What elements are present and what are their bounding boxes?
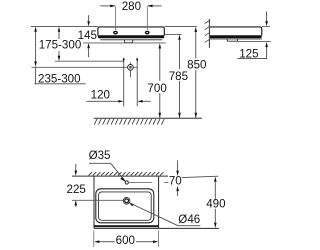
svg-text:600: 600	[116, 234, 135, 247]
faucet hole line	[129, 182, 152, 184]
dim 70	[177, 160, 179, 171]
dim 225	[75, 164, 77, 171]
basin plan view front edge line	[94, 227, 219, 229]
dim 235-300	[34, 27, 37, 32]
drain hole outer	[123, 198, 130, 205]
svg-text:120: 120	[91, 88, 110, 101]
dim 490	[214, 177, 217, 182]
dim 280 line	[100, 5, 115, 7]
dim 785	[178, 35, 181, 40]
basin plan view front thick band	[94, 225, 158, 227]
drain hole inner	[125, 199, 129, 203]
dim 145	[88, 15, 90, 21]
svg-text:Ø46: Ø46	[178, 213, 200, 226]
dim 175-300	[58, 27, 61, 32]
mounting hole right	[146, 31, 149, 33]
drain trap symbol	[129, 62, 131, 77]
svg-text:490: 490	[206, 198, 225, 211]
basin side view lower thin line	[210, 38, 262, 40]
basin front view thick bottom band	[98, 35, 164, 38]
svg-text:175-300: 175-300	[39, 39, 82, 52]
label Ø46 with leader	[128, 202, 134, 206]
svg-text:70: 70	[169, 174, 182, 187]
basin front view outline	[98, 27, 164, 36]
basin bowl outer	[96, 189, 154, 223]
node drain center line plan view	[72, 199, 123, 201]
svg-text:225: 225	[67, 183, 86, 196]
supply pipe right	[136, 58, 138, 107]
dim 125	[266, 12, 268, 22]
basin plan view outer rectangle	[94, 176, 159, 228]
supply pipe left	[123, 58, 125, 107]
basin side view drain cover bump	[227, 39, 238, 41]
floor hatching	[94, 119, 164, 125]
node 125 lower reference line	[238, 41, 271, 43]
svg-text:850: 850	[187, 58, 206, 71]
basin front view lower thin line	[100, 39, 162, 41]
node wall line plan view	[72, 175, 168, 177]
wall line side view with hatching	[208, 19, 210, 48]
wall hatching plan view	[89, 172, 164, 175]
faucet hole	[125, 181, 128, 184]
node 785 reference line	[164, 33, 181, 35]
node basin underside reference line	[83, 42, 166, 44]
dim 850	[195, 27, 198, 32]
dim 700	[159, 43, 162, 48]
dim 120	[86, 100, 118, 102]
node 125 upper reference line	[262, 26, 270, 28]
svg-text:280: 280	[122, 0, 141, 13]
dim 280 extension lines	[114, 7, 116, 31]
basin side view outline	[210, 27, 262, 36]
svg-text:Ø35: Ø35	[89, 149, 111, 162]
node supply height tick line	[55, 60, 124, 62]
mounting hole left	[114, 31, 117, 33]
node floor line	[94, 117, 202, 119]
svg-text:785: 785	[169, 70, 188, 83]
basin side view thick bottom band	[210, 35, 262, 38]
dim 600	[94, 240, 99, 243]
basin bowl inner	[99, 192, 152, 220]
node drain height reference line	[32, 66, 138, 68]
basin front view drain cover bump	[124, 40, 133, 43]
dim 600 extension lines	[93, 231, 95, 247]
node top reference line (basin top level, elevation)	[31, 26, 98, 28]
svg-text:700: 700	[147, 82, 166, 95]
